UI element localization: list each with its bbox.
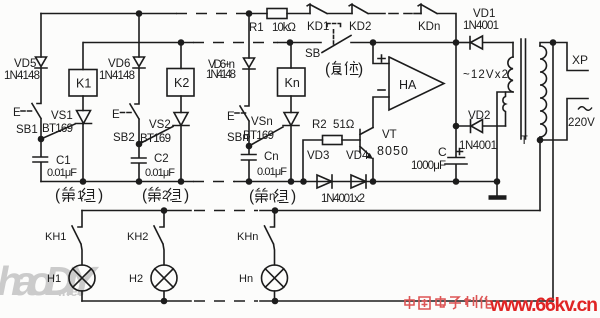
svg-text:www.66kv.cn: www.66kv.cn xyxy=(489,294,598,316)
svg-text:Cn: Cn xyxy=(264,151,279,163)
svg-text:VS1: VS1 xyxy=(51,110,73,122)
svg-text:BT169: BT169 xyxy=(42,123,73,135)
svg-text:): ) xyxy=(358,61,363,78)
svg-text:Kn: Kn xyxy=(285,76,300,90)
svg-text:VD5: VD5 xyxy=(14,58,36,70)
svg-text:0.01μF: 0.01μF xyxy=(47,167,77,179)
svg-text:KD1: KD1 xyxy=(307,21,329,33)
svg-text:VD6: VD6 xyxy=(108,58,130,70)
svg-text:): ) xyxy=(184,187,189,204)
svg-text:51Ω: 51Ω xyxy=(333,119,355,131)
svg-text:KHn: KHn xyxy=(237,231,258,243)
svg-text:C1: C1 xyxy=(56,155,71,167)
svg-text:E: E xyxy=(227,111,235,123)
svg-text:KH2: KH2 xyxy=(127,231,148,243)
svg-text:E: E xyxy=(13,107,21,119)
svg-text:1000μF: 1000μF xyxy=(411,160,446,172)
svg-text:R1: R1 xyxy=(249,22,264,34)
svg-text:(: ( xyxy=(325,61,331,78)
svg-text:1N4148: 1N4148 xyxy=(99,70,135,82)
svg-text:8050: 8050 xyxy=(377,144,408,158)
svg-text:1N4001x2: 1N4001x2 xyxy=(321,193,365,205)
svg-text:VSn: VSn xyxy=(251,116,273,128)
svg-text:VT: VT xyxy=(382,129,397,141)
svg-text:K1: K1 xyxy=(76,77,91,91)
svg-text:(: ( xyxy=(55,187,61,204)
svg-text:VD4: VD4 xyxy=(346,150,369,162)
svg-text:SB: SB xyxy=(305,48,321,60)
svg-text:VD2: VD2 xyxy=(468,110,490,122)
svg-text:1N4001: 1N4001 xyxy=(459,140,497,152)
svg-text:KH1: KH1 xyxy=(45,231,66,243)
svg-text:0.01μF: 0.01μF xyxy=(257,166,287,178)
svg-text:220V: 220V xyxy=(568,117,595,129)
svg-text:): ) xyxy=(291,188,296,205)
svg-text:1N4148: 1N4148 xyxy=(206,69,236,81)
svg-text:C2: C2 xyxy=(154,153,169,165)
svg-text:BT169: BT169 xyxy=(140,133,171,145)
svg-text:(: ( xyxy=(142,187,148,204)
svg-text:HA: HA xyxy=(399,78,417,92)
svg-text:SB1: SB1 xyxy=(16,124,38,136)
svg-text:E: E xyxy=(112,109,120,121)
svg-text:VD3: VD3 xyxy=(307,150,329,162)
svg-text:K2: K2 xyxy=(174,76,189,90)
svg-text:BT169: BT169 xyxy=(243,130,274,142)
svg-text:1N4001: 1N4001 xyxy=(463,20,499,32)
svg-text:KD2: KD2 xyxy=(349,21,371,33)
svg-text:Hn: Hn xyxy=(239,273,253,285)
svg-text:H1: H1 xyxy=(47,273,61,285)
svg-text:H2: H2 xyxy=(129,273,143,285)
svg-text:0.01μF: 0.01μF xyxy=(145,167,175,179)
svg-text:10kΩ: 10kΩ xyxy=(272,22,296,34)
svg-text:.net: .net xyxy=(58,284,83,299)
svg-text:(: ( xyxy=(249,188,255,205)
svg-text:C: C xyxy=(438,145,447,159)
svg-text:R2: R2 xyxy=(312,119,327,131)
svg-text:VS2: VS2 xyxy=(149,119,171,131)
svg-text:SB2: SB2 xyxy=(113,132,135,144)
svg-text:XP: XP xyxy=(572,53,588,67)
svg-text:): ) xyxy=(98,187,103,204)
svg-text:T: T xyxy=(521,133,529,147)
svg-text:1N4148: 1N4148 xyxy=(4,70,40,82)
svg-text:KDn: KDn xyxy=(418,21,440,33)
svg-text:VD1: VD1 xyxy=(473,8,495,20)
